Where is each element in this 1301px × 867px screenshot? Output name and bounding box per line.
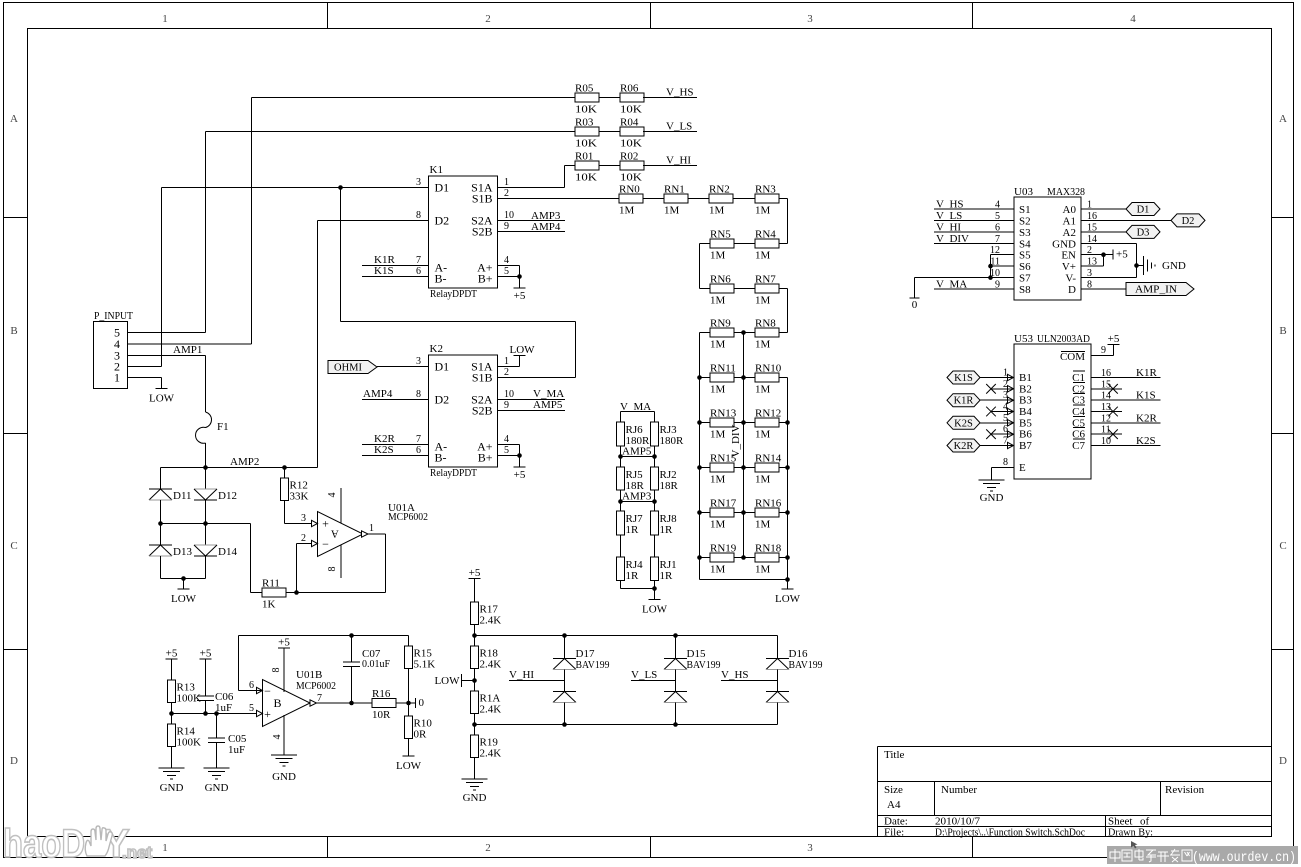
svg-text:K1S: K1S	[954, 373, 973, 384]
svg-text:B: B	[1279, 325, 1286, 337]
svg-text:LOW: LOW	[396, 760, 422, 772]
svg-text:V_HI: V_HI	[936, 221, 961, 233]
svg-text:OHMI: OHMI	[334, 363, 363, 374]
svg-text:10R: 10R	[372, 709, 391, 721]
svg-text:B: B	[10, 325, 17, 337]
svg-text:3: 3	[807, 842, 813, 854]
svg-text:K2R: K2R	[954, 441, 974, 452]
svg-text:8: 8	[416, 210, 421, 221]
svg-text:F1: F1	[217, 421, 229, 433]
svg-text:B2: B2	[1019, 383, 1032, 395]
svg-text:AMP4: AMP4	[531, 221, 561, 233]
svg-text:1M: 1M	[755, 339, 771, 351]
svg-text:LOW: LOW	[434, 675, 460, 687]
svg-text:K1S: K1S	[1136, 390, 1156, 402]
svg-text:C: C	[10, 540, 17, 552]
svg-text:6: 6	[995, 222, 1000, 233]
svg-text:2: 2	[485, 13, 491, 25]
svg-text:2.4K: 2.4K	[480, 748, 502, 760]
svg-text:1: 1	[162, 13, 168, 25]
svg-text:R16: R16	[372, 688, 391, 700]
svg-text:V_LS: V_LS	[666, 121, 692, 133]
svg-text:K1S: K1S	[374, 265, 394, 277]
svg-text:10K: 10K	[620, 138, 642, 150]
svg-text:MCP6002: MCP6002	[296, 680, 336, 692]
svg-text:−: −	[264, 684, 271, 698]
svg-text:B5: B5	[1019, 417, 1032, 429]
svg-text:16: 16	[1087, 211, 1097, 222]
svg-text:D1: D1	[435, 181, 450, 195]
svg-text:D2: D2	[435, 214, 450, 228]
svg-text:5.1K: 5.1K	[414, 659, 436, 671]
svg-text:+5: +5	[278, 637, 290, 649]
svg-text:D2: D2	[435, 393, 450, 407]
svg-text:RN18: RN18	[755, 543, 782, 555]
svg-text:8: 8	[416, 389, 421, 400]
svg-text:3: 3	[1003, 390, 1008, 401]
svg-text:LOW: LOW	[642, 604, 668, 616]
svg-text:4: 4	[272, 735, 283, 740]
svg-text:B+: B+	[478, 451, 493, 465]
svg-text:5: 5	[1003, 413, 1008, 424]
svg-text:D: D	[1068, 284, 1076, 296]
svg-text:1M: 1M	[710, 339, 726, 351]
svg-text:1M: 1M	[755, 205, 771, 217]
svg-text:B3: B3	[1019, 395, 1032, 407]
svg-text:S8: S8	[1019, 284, 1031, 296]
svg-text:3: 3	[416, 356, 421, 367]
svg-text:V+: V+	[1062, 261, 1076, 273]
svg-text:LOW: LOW	[171, 593, 197, 605]
svg-text:V-: V-	[1065, 273, 1076, 285]
svg-text:1M: 1M	[710, 295, 726, 307]
svg-text:3: 3	[1087, 268, 1092, 279]
svg-text:1M: 1M	[755, 384, 771, 396]
svg-text:+5: +5	[166, 648, 178, 660]
svg-text:S2B: S2B	[472, 225, 493, 239]
svg-text:1R: 1R	[660, 524, 674, 536]
svg-text:3: 3	[807, 13, 813, 25]
svg-text:GND: GND	[1052, 238, 1076, 250]
svg-text:8: 8	[327, 567, 338, 572]
svg-text:K2: K2	[430, 343, 443, 355]
svg-text:7: 7	[1003, 436, 1008, 447]
svg-text:A: A	[1279, 113, 1287, 125]
svg-text:10K: 10K	[575, 138, 597, 150]
svg-text:10K: 10K	[575, 104, 597, 116]
svg-text:R01: R01	[575, 151, 593, 163]
svg-text:9: 9	[504, 221, 509, 232]
svg-text:1M: 1M	[709, 205, 725, 217]
svg-text:D1: D1	[1137, 205, 1150, 216]
svg-text:1M: 1M	[710, 384, 726, 396]
svg-text:K2S: K2S	[954, 418, 973, 429]
svg-text:RN5: RN5	[710, 229, 731, 241]
svg-text:0: 0	[912, 299, 918, 311]
svg-text:LOW: LOW	[149, 393, 175, 405]
svg-text:A1: A1	[1063, 215, 1076, 227]
svg-text:7: 7	[416, 255, 421, 266]
svg-text:10: 10	[504, 210, 514, 221]
svg-text:File:: File:	[884, 827, 904, 839]
svg-text:+5: +5	[469, 567, 481, 579]
svg-text:S1B: S1B	[472, 192, 493, 206]
svg-text:S1B: S1B	[472, 371, 493, 385]
svg-text:K2S: K2S	[374, 444, 394, 456]
svg-text:D3: D3	[1137, 227, 1150, 238]
svg-text:D2: D2	[1182, 216, 1195, 227]
svg-text:K2S: K2S	[1136, 435, 1156, 447]
svg-text:+: +	[264, 707, 271, 721]
svg-text:1uF: 1uF	[228, 744, 245, 756]
svg-text:4: 4	[1130, 13, 1136, 25]
svg-text:15: 15	[1087, 222, 1097, 233]
svg-text:4: 4	[995, 200, 1000, 211]
svg-text:2: 2	[1003, 379, 1008, 390]
svg-text:1: 1	[369, 523, 374, 534]
svg-text:+5: +5	[1108, 333, 1120, 345]
svg-text:RN4: RN4	[755, 229, 776, 241]
svg-text:2.4K: 2.4K	[480, 615, 502, 627]
svg-text:3: 3	[301, 513, 306, 524]
svg-text:+: +	[322, 517, 329, 531]
svg-text:5: 5	[995, 211, 1000, 222]
svg-text:6: 6	[416, 445, 421, 456]
svg-text:GND: GND	[272, 771, 296, 783]
svg-text:GND: GND	[205, 782, 229, 794]
svg-text:Drawn By:: Drawn By:	[1108, 827, 1153, 839]
svg-text:8: 8	[1003, 457, 1008, 468]
svg-text:10K: 10K	[620, 104, 642, 116]
svg-text:RN16: RN16	[755, 498, 782, 510]
svg-text:C: C	[1279, 540, 1286, 552]
svg-text:V_MA: V_MA	[936, 279, 967, 291]
svg-text:RN7: RN7	[755, 274, 776, 286]
svg-text:1: 1	[504, 356, 509, 367]
svg-text:S4: S4	[1019, 238, 1031, 250]
svg-text:S5: S5	[1019, 250, 1031, 262]
svg-text:RN17: RN17	[710, 498, 737, 510]
svg-text:A: A	[331, 528, 339, 540]
svg-text:LOW: LOW	[775, 593, 801, 605]
svg-text:AMP4: AMP4	[363, 388, 393, 400]
svg-text:+5: +5	[514, 469, 526, 481]
svg-text:A0: A0	[1063, 204, 1077, 216]
svg-text:V_HI: V_HI	[666, 155, 691, 167]
svg-text:RN10: RN10	[755, 363, 782, 375]
svg-text:D14: D14	[218, 546, 237, 558]
svg-text:7: 7	[317, 693, 322, 704]
svg-text:0R: 0R	[414, 729, 428, 741]
svg-text:1M: 1M	[664, 205, 680, 217]
svg-text:V_LS: V_LS	[631, 669, 657, 681]
svg-text:V_HS: V_HS	[721, 669, 749, 681]
svg-text:4: 4	[504, 255, 509, 266]
svg-text:V_DIV: V_DIV	[936, 233, 969, 245]
svg-text:COM: COM	[1060, 351, 1085, 363]
svg-text:B6: B6	[1019, 429, 1032, 441]
svg-text:A2: A2	[1063, 227, 1076, 239]
svg-text:GND: GND	[980, 492, 1004, 504]
svg-text:V_HS: V_HS	[666, 87, 694, 99]
svg-text:R05: R05	[575, 83, 594, 95]
svg-text:9: 9	[1101, 345, 1106, 356]
svg-text:10K: 10K	[575, 172, 597, 184]
svg-text:6: 6	[249, 680, 254, 691]
svg-text:B-: B-	[435, 272, 447, 286]
svg-text:D1: D1	[435, 360, 450, 374]
svg-text:2.4K: 2.4K	[480, 704, 502, 716]
svg-text:D11: D11	[173, 490, 192, 502]
svg-text:1R: 1R	[660, 570, 674, 582]
svg-text:R11: R11	[262, 578, 280, 590]
svg-text:1M: 1M	[710, 519, 726, 531]
svg-text:RN13: RN13	[710, 408, 737, 420]
svg-text:BAV199: BAV199	[789, 659, 823, 671]
svg-text:RN0: RN0	[619, 184, 640, 196]
svg-text:+5: +5	[200, 648, 212, 660]
svg-text:1M: 1M	[710, 564, 726, 576]
svg-text:A: A	[10, 113, 18, 125]
svg-text:D13: D13	[173, 546, 192, 558]
svg-text:K1R: K1R	[1136, 367, 1157, 379]
svg-text:2: 2	[301, 533, 306, 544]
svg-text:RN14: RN14	[755, 453, 782, 465]
svg-text:5: 5	[504, 266, 509, 277]
svg-text:33K: 33K	[290, 491, 309, 503]
svg-text:2: 2	[485, 842, 491, 854]
svg-text:9: 9	[504, 400, 509, 411]
svg-text:−: −	[322, 537, 329, 551]
svg-text:LOW: LOW	[509, 344, 535, 356]
svg-text:R06: R06	[620, 83, 639, 95]
svg-text:GND: GND	[463, 792, 487, 804]
svg-text:1: 1	[1087, 200, 1092, 211]
svg-text:U53: U53	[1014, 333, 1033, 345]
svg-text:S3: S3	[1019, 227, 1031, 239]
svg-text:7: 7	[995, 234, 1000, 245]
svg-text:1R: 1R	[626, 570, 640, 582]
svg-text:RN6: RN6	[710, 274, 731, 286]
svg-text:RN3: RN3	[755, 184, 776, 196]
svg-text:1M: 1M	[755, 295, 771, 307]
svg-text:ULN2003AD: ULN2003AD	[1037, 333, 1090, 345]
svg-text:6: 6	[416, 266, 421, 277]
svg-text:RN1: RN1	[664, 184, 685, 196]
svg-text:1M: 1M	[710, 250, 726, 262]
svg-text:100K: 100K	[177, 737, 202, 749]
svg-text:V_DIV: V_DIV	[730, 424, 742, 457]
svg-text:K1R: K1R	[954, 396, 974, 407]
svg-text:AMP_IN: AMP_IN	[1135, 285, 1177, 296]
svg-text:18R: 18R	[660, 480, 679, 492]
svg-text:V_LS: V_LS	[936, 210, 962, 222]
svg-text:AMP3: AMP3	[622, 491, 652, 503]
svg-text:D: D	[10, 755, 18, 767]
svg-text:Size: Size	[884, 784, 903, 796]
svg-text:.net: .net	[122, 843, 153, 862]
svg-text:10K: 10K	[620, 172, 642, 184]
svg-text:1M: 1M	[755, 429, 771, 441]
svg-text:RN9: RN9	[710, 318, 731, 330]
svg-text:4: 4	[504, 434, 509, 445]
svg-text:RelayDPDT: RelayDPDT	[430, 288, 477, 300]
svg-text:V_HI: V_HI	[509, 669, 534, 681]
svg-text:RN11: RN11	[710, 363, 736, 375]
svg-text:(www.ourdev.cn): (www.ourdev.cn)	[1192, 851, 1296, 866]
svg-text:S2: S2	[1019, 215, 1031, 227]
svg-text:5: 5	[249, 703, 254, 714]
svg-text:1M: 1M	[710, 474, 726, 486]
svg-text:E: E	[1019, 462, 1026, 474]
svg-text:D12: D12	[218, 490, 237, 502]
svg-text:AMP5: AMP5	[533, 399, 563, 411]
svg-text:180R: 180R	[660, 435, 685, 447]
svg-text:2: 2	[504, 188, 509, 199]
svg-text:1M: 1M	[755, 250, 771, 262]
svg-text:1K: 1K	[262, 599, 276, 611]
svg-text:14: 14	[1087, 234, 1097, 245]
svg-text:AMP1: AMP1	[173, 344, 202, 356]
svg-text:B-: B-	[435, 451, 447, 465]
svg-text:B7: B7	[1019, 440, 1032, 452]
svg-text:RN2: RN2	[709, 184, 730, 196]
svg-text:1M: 1M	[755, 564, 771, 576]
svg-text:2: 2	[504, 367, 509, 378]
svg-text:GND: GND	[1162, 260, 1186, 272]
svg-text:U03: U03	[1014, 186, 1033, 198]
svg-text:R02: R02	[620, 151, 638, 163]
svg-text:8: 8	[271, 668, 282, 673]
svg-text:A4: A4	[887, 799, 901, 811]
svg-text:7: 7	[416, 434, 421, 445]
svg-text:1M: 1M	[755, 519, 771, 531]
svg-text:S6: S6	[1019, 261, 1031, 273]
svg-text:2.4K: 2.4K	[480, 659, 502, 671]
svg-text:R03: R03	[575, 117, 594, 129]
svg-text:GND: GND	[160, 782, 184, 794]
svg-text:100K: 100K	[177, 693, 202, 705]
svg-text:AMP2: AMP2	[230, 456, 259, 468]
svg-text:1: 1	[114, 371, 120, 385]
svg-text:V_HS: V_HS	[936, 199, 964, 211]
svg-text:BAV199: BAV199	[576, 659, 610, 671]
svg-text:1: 1	[162, 842, 168, 854]
svg-text:5: 5	[504, 445, 509, 456]
svg-text:Title: Title	[884, 749, 905, 761]
svg-text:K2R: K2R	[1136, 412, 1157, 424]
svg-text:MCP6002: MCP6002	[388, 511, 428, 523]
svg-text:1M: 1M	[619, 205, 635, 217]
svg-text:BAV199: BAV199	[687, 659, 721, 671]
svg-text:B: B	[273, 696, 281, 710]
svg-text:Revision: Revision	[1165, 784, 1205, 796]
svg-text:K1: K1	[430, 164, 443, 176]
svg-text:3: 3	[416, 177, 421, 188]
svg-text:EN: EN	[1061, 250, 1076, 262]
svg-text:8: 8	[1087, 280, 1092, 291]
svg-text:1M: 1M	[710, 429, 726, 441]
svg-text:0: 0	[419, 697, 425, 709]
svg-text:R04: R04	[620, 117, 639, 129]
svg-text:S2B: S2B	[472, 404, 493, 418]
svg-text:1: 1	[1003, 368, 1008, 379]
svg-text:B+: B+	[478, 272, 493, 286]
svg-text:Number: Number	[941, 784, 977, 796]
svg-text:B1: B1	[1019, 372, 1032, 384]
svg-text:6: 6	[1003, 424, 1008, 435]
svg-text:10: 10	[504, 389, 514, 400]
svg-text:AMP5: AMP5	[622, 446, 652, 458]
svg-text:D:\Projects\..\Function Switch: D:\Projects\..\Function Switch.SchDoc	[935, 827, 1085, 839]
svg-text:2: 2	[1087, 245, 1092, 256]
svg-text:S1: S1	[1019, 204, 1031, 216]
svg-text:4: 4	[1003, 402, 1008, 413]
svg-text:0.01uF: 0.01uF	[362, 658, 390, 670]
svg-text:RelayDPDT: RelayDPDT	[430, 467, 477, 479]
svg-text:P_INPUT: P_INPUT	[94, 310, 133, 322]
svg-text:1R: 1R	[626, 524, 640, 536]
svg-text:13: 13	[1087, 257, 1097, 268]
svg-text:D: D	[1279, 755, 1287, 767]
svg-text:B4: B4	[1019, 406, 1032, 418]
svg-text:4: 4	[327, 493, 338, 498]
svg-text:1: 1	[504, 177, 509, 188]
svg-text:RN19: RN19	[710, 543, 737, 555]
svg-text:S7: S7	[1019, 273, 1031, 285]
svg-text:RN8: RN8	[755, 318, 776, 330]
svg-text:RN12: RN12	[755, 408, 781, 420]
svg-text:+5: +5	[1116, 249, 1128, 261]
svg-text:+5: +5	[514, 290, 526, 302]
svg-text:C7: C7	[1072, 440, 1085, 452]
svg-text:1M: 1M	[755, 474, 771, 486]
svg-text:haoD: haoD	[3, 822, 85, 866]
svg-text:MAX328: MAX328	[1047, 186, 1085, 198]
